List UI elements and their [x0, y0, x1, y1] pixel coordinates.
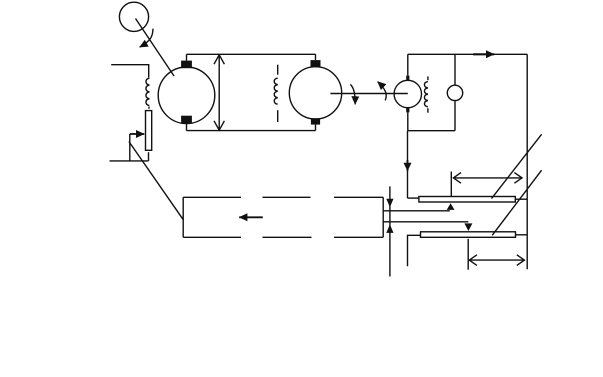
voltage dimension arrow (loop) — [214, 54, 224, 130]
wire meter top lead — [454, 54, 456, 85]
wire armature loop bottom — [187, 130, 316, 132]
fork prong upper — [383, 210, 450, 212]
rod top edge segment 1 — [183, 196, 241, 198]
motor field coil L2 — [274, 78, 277, 104]
rod right edge — [382, 197, 384, 237]
wire lower plate to riser — [516, 234, 528, 236]
brush tick (T1 top) — [406, 76, 409, 81]
wire T1 bottom lead — [407, 112, 409, 130]
rod top edge segment 2 — [263, 196, 311, 198]
tachometer generator T1 — [394, 80, 421, 107]
wire G1 bottom stub — [186, 123, 188, 130]
current arrow (top wire) — [473, 53, 494, 55]
rod left edge — [182, 197, 184, 237]
field coil L1 (generator field) — [146, 78, 149, 105]
wire G1 top stub — [186, 54, 188, 60]
travel dimension arrow lower — [469, 255, 524, 266]
rotation arrow (prime mover shaft) — [140, 29, 153, 48]
generator G1 armature — [158, 67, 215, 124]
wire upper plate to riser — [515, 198, 527, 200]
motion arrow (rod moves left) — [239, 216, 263, 218]
contact arrow up (prong to upper plate) — [447, 203, 455, 210]
wire drop to upper plate — [407, 131, 409, 198]
rheostat bottom lead — [148, 152, 150, 161]
brush (G1 bottom) — [181, 116, 192, 124]
wire jog to upper plate — [408, 197, 419, 199]
motor field coil L2 dashed lead bottom — [277, 110, 279, 122]
fork prong lower — [383, 221, 468, 223]
gap dimension arrow up — [386, 224, 393, 233]
rheostat R1 (field rheostat) — [146, 111, 152, 151]
motor output shaft — [330, 93, 407, 95]
wire meter bottom lead — [454, 101, 456, 131]
dimension tick (upper travel) — [450, 172, 452, 197]
rod bottom edge segment 2 — [263, 236, 312, 238]
rod top edge segment 3 — [334, 196, 383, 198]
wire output top — [408, 53, 527, 55]
rotation arrow (shaft, down) — [350, 84, 355, 104]
wiper lead — [129, 134, 131, 161]
contact arrow down (prong to lower plate) — [464, 223, 472, 231]
gap dimension arrow down — [386, 199, 393, 208]
brush (G1 top) — [181, 61, 192, 69]
field circuit bottom lead — [110, 160, 149, 162]
wire M1 top stub — [315, 54, 317, 60]
rod bottom edge segment 3 — [334, 236, 383, 238]
field circuit top lead (left supply) — [111, 65, 149, 78]
leader line A (to upper plate) — [492, 134, 542, 198]
rod bottom edge segment 1 — [183, 236, 241, 238]
wire right riser (to fixed contacts) — [526, 54, 528, 269]
lower fixed contact plate — [421, 232, 516, 238]
wire T1 top lead — [407, 54, 409, 75]
brush tick (T1 bottom) — [406, 108, 409, 113]
brush (M1 bottom) — [311, 118, 320, 124]
wire M1 bottom stub — [315, 125, 317, 131]
meter P1 — [447, 85, 462, 100]
motor M1 armature — [289, 67, 341, 119]
travel dimension arrow upper — [453, 173, 522, 184]
wire output bottom — [408, 130, 455, 132]
current arrow (drop wire) — [407, 160, 409, 171]
rotation arrow (shaft, up) — [378, 82, 387, 101]
prime mover circle (engine) — [119, 2, 148, 31]
tachometer field coil L3 dash bottom — [427, 108, 429, 113]
gap dimension line — [389, 186, 391, 276]
lead dash below coil — [148, 107, 150, 109]
rheostat wiper arrow — [130, 133, 144, 135]
leader line B (to lower plate) — [492, 170, 541, 235]
wire armature loop top — [187, 53, 316, 55]
tachometer field coil L3 dash top — [427, 76, 429, 80]
motor field coil L2 dashed lead top — [277, 65, 279, 75]
prime mover shaft — [136, 19, 175, 77]
mechanical link (wiper to rod) — [129, 142, 184, 221]
brush (M1 top) — [311, 60, 321, 67]
wire lower plate left lead — [408, 235, 421, 266]
tachometer field coil L3 — [424, 82, 427, 107]
dimension tick (lower travel) — [467, 239, 469, 270]
upper fixed contact plate — [419, 197, 515, 203]
